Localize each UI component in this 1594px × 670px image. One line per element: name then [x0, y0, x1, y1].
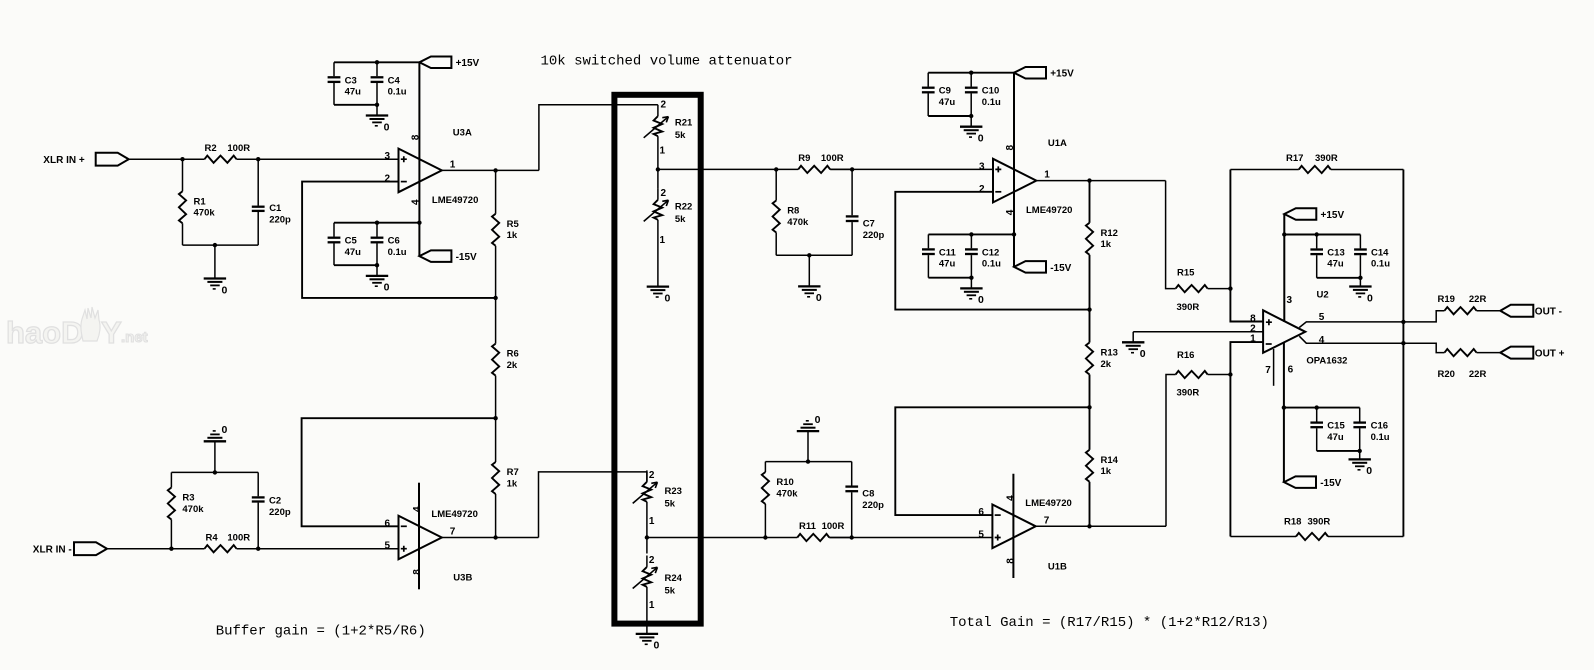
svg-text:C3: C3	[345, 75, 357, 86]
ground	[647, 287, 671, 305]
svg-text:1k: 1k	[507, 478, 518, 489]
wire	[129, 158, 205, 160]
svg-text:0: 0	[222, 424, 228, 436]
resistor R12 1k	[1086, 181, 1118, 310]
svg-text:0: 0	[1366, 465, 1372, 477]
svg-text:0: 0	[384, 121, 390, 133]
svg-text:R23: R23	[665, 486, 682, 497]
svg-text:470k: 470k	[787, 217, 809, 228]
svg-text:22R: 22R	[1469, 369, 1487, 380]
junction	[1358, 276, 1362, 280]
wire	[829, 537, 992, 539]
svg-text:220p: 220p	[863, 230, 885, 241]
svg-text:U1A: U1A	[1048, 138, 1067, 149]
svg-text:Y: Y	[101, 315, 122, 350]
svg-text:-15V: -15V	[1050, 263, 1071, 274]
svg-text:7: 7	[1044, 515, 1050, 526]
svg-text:R3: R3	[182, 493, 194, 504]
capacitor C7 220p	[846, 169, 885, 255]
svg-text:R15: R15	[1177, 268, 1195, 279]
wire	[302, 182, 496, 298]
svg-text:C1: C1	[269, 203, 282, 214]
svg-text:0.1u: 0.1u	[982, 97, 1001, 108]
wire	[647, 537, 766, 539]
capacitor C15 47u	[1310, 408, 1345, 451]
svg-text:2: 2	[384, 174, 390, 185]
svg-text:U3B: U3B	[453, 573, 472, 584]
svg-text:R7: R7	[507, 467, 519, 478]
resistor R16 390R	[1176, 350, 1231, 398]
annotation: buffer gain formula	[216, 623, 426, 639]
svg-text:47u: 47u	[1327, 259, 1344, 270]
wire	[928, 72, 1014, 74]
junction	[1315, 405, 1319, 409]
svg-text:47u: 47u	[345, 247, 362, 258]
wire	[539, 105, 658, 171]
op-amp U3B LME49720	[384, 506, 477, 584]
svg-text:100R: 100R	[227, 532, 250, 543]
junction	[375, 60, 379, 64]
junction	[1228, 286, 1232, 290]
svg-text:0.1u: 0.1u	[388, 247, 407, 258]
wire	[1284, 234, 1360, 236]
ground	[960, 278, 984, 307]
wire	[1230, 342, 1263, 536]
svg-text:100R: 100R	[822, 521, 845, 532]
svg-text:2k: 2k	[507, 360, 518, 371]
resistor R14 1k	[1086, 407, 1119, 526]
resistor R2 100R	[205, 143, 251, 163]
svg-text:3: 3	[384, 151, 390, 162]
potentiometer R21 5k	[644, 100, 693, 170]
svg-text:390R: 390R	[1177, 387, 1200, 398]
svg-text:1: 1	[660, 235, 666, 246]
svg-text:220p: 220p	[269, 214, 291, 225]
junction	[1087, 405, 1091, 409]
wire	[928, 277, 971, 279]
power rail U1A	[1013, 73, 1015, 267]
svg-text:C14: C14	[1371, 248, 1389, 259]
ground	[204, 245, 228, 296]
junction	[1012, 232, 1016, 236]
connector XLR IN -	[33, 542, 107, 555]
wire	[1403, 343, 1444, 352]
wire	[1036, 525, 1166, 527]
svg-text:Total Gain = (R17/R15) * (1+2*: Total Gain = (R17/R15) * (1+2*R12/R13)	[950, 615, 1269, 631]
svg-text:R19: R19	[1438, 294, 1455, 305]
capacitor C16 0.1u	[1353, 408, 1389, 451]
svg-text:LME49720: LME49720	[1025, 498, 1071, 509]
junction	[213, 470, 217, 474]
pin 3 rail U2	[1283, 214, 1285, 322]
svg-text:C13: C13	[1327, 248, 1344, 259]
svg-text:100R: 100R	[227, 143, 250, 154]
svg-text:LME49720: LME49720	[1026, 205, 1072, 216]
wire	[1299, 322, 1403, 328]
pin 6 rail U2	[1283, 342, 1285, 482]
power flag -15V	[1284, 476, 1342, 489]
svg-text:U1B: U1B	[1048, 561, 1067, 572]
svg-text:Buffer gain = (1+2*R5/R6): Buffer gain = (1+2*R5/R6)	[216, 623, 426, 639]
attenuator box	[614, 95, 700, 624]
svg-text:5: 5	[384, 541, 390, 552]
svg-text:390R: 390R	[1315, 153, 1338, 164]
svg-text:1k: 1k	[507, 230, 518, 241]
svg-text:R20: R20	[1438, 369, 1455, 380]
junction	[969, 114, 973, 118]
ground	[366, 265, 390, 294]
svg-text:390R: 390R	[1308, 517, 1331, 528]
svg-text:R2: R2	[205, 143, 217, 154]
wire	[830, 168, 993, 170]
wire	[442, 169, 539, 171]
junction	[256, 157, 260, 161]
capacitor C11 47u	[922, 234, 957, 277]
wire	[1166, 375, 1176, 527]
svg-text:2k: 2k	[1101, 359, 1112, 370]
junction	[417, 221, 421, 225]
junction	[375, 103, 379, 107]
svg-text:5: 5	[978, 530, 984, 541]
junction	[1087, 178, 1091, 182]
op-amp U1A LME49720	[979, 138, 1073, 216]
capacitor C9 47u	[922, 73, 955, 116]
junction	[375, 263, 379, 267]
svg-text:OUT -: OUT -	[1535, 307, 1562, 318]
wire	[1402, 170, 1404, 537]
capacitor C6 0.1u	[371, 223, 407, 266]
svg-text:6: 6	[1288, 364, 1294, 375]
power rail U3B	[418, 483, 420, 590]
svg-text:0: 0	[665, 292, 671, 304]
junction	[493, 416, 497, 420]
svg-text:R21: R21	[675, 118, 693, 129]
junction	[807, 253, 811, 257]
resistor R7 1k	[492, 418, 519, 537]
capacitor C4 0.1u	[371, 62, 407, 105]
svg-text:10k switched volume attenuator: 10k switched volume attenuator	[541, 54, 793, 70]
ground	[636, 634, 660, 652]
junction	[850, 167, 854, 171]
svg-text:+15V: +15V	[456, 58, 480, 69]
svg-text:R6: R6	[507, 349, 519, 360]
svg-text:8: 8	[412, 569, 423, 575]
junction	[1315, 232, 1319, 236]
wire	[928, 233, 1014, 235]
junction	[1358, 449, 1362, 453]
resistor R15 390R	[1176, 268, 1231, 313]
potentiometer R23 5k	[633, 470, 682, 538]
op-amp U3A LME49720	[384, 127, 478, 205]
svg-text:C2: C2	[269, 496, 281, 507]
wire	[183, 244, 259, 246]
svg-text:C4: C4	[388, 75, 401, 86]
svg-text:2: 2	[661, 188, 667, 199]
svg-text:C11: C11	[939, 247, 957, 258]
wire	[928, 115, 971, 117]
svg-text:0: 0	[978, 133, 984, 145]
wire	[658, 168, 776, 170]
svg-text:1: 1	[450, 159, 456, 170]
svg-text:-15V: -15V	[1320, 478, 1341, 489]
svg-text:2: 2	[661, 100, 667, 111]
svg-text:R17: R17	[1286, 153, 1303, 164]
svg-text:C10: C10	[982, 86, 999, 97]
ground	[798, 255, 822, 304]
resistor R3 470k	[168, 472, 204, 548]
power flag -15V	[1014, 261, 1072, 274]
svg-text:R18: R18	[1284, 517, 1301, 528]
svg-text:0.1u: 0.1u	[1371, 259, 1390, 270]
resistor R20 22R	[1438, 349, 1501, 380]
potentiometer R24 5k	[633, 538, 683, 634]
capacitor C10 0.1u	[965, 73, 1001, 116]
svg-text:3: 3	[1287, 295, 1293, 306]
svg-text:OPA1632: OPA1632	[1306, 355, 1347, 366]
svg-text:3: 3	[979, 161, 985, 172]
svg-text:0.1u: 0.1u	[1371, 432, 1390, 443]
capacitor C3 47u	[328, 62, 362, 105]
power flag -15V	[419, 250, 477, 263]
wire	[1299, 336, 1403, 343]
svg-text:8: 8	[1006, 558, 1017, 564]
junction	[493, 535, 497, 539]
svg-text:5k: 5k	[675, 214, 686, 225]
svg-text:C6: C6	[388, 236, 400, 247]
svg-text:0: 0	[816, 292, 822, 304]
power flag +15V	[1014, 67, 1074, 80]
pin 7 stub U2	[1273, 349, 1275, 386]
svg-text:R12: R12	[1101, 228, 1118, 239]
resistor R1 470k	[179, 159, 215, 245]
resistor R18 390R	[1230, 517, 1403, 541]
wire	[1284, 407, 1360, 409]
ground	[366, 105, 390, 134]
svg-text:6: 6	[384, 518, 390, 529]
svg-text:U3A: U3A	[453, 127, 472, 138]
ground	[204, 424, 228, 472]
svg-text:0: 0	[222, 284, 228, 296]
svg-text:0: 0	[1140, 348, 1146, 360]
svg-text:.net: .net	[121, 329, 148, 346]
svg-text:0: 0	[815, 414, 821, 426]
svg-text:2: 2	[649, 555, 655, 566]
svg-text:R24: R24	[665, 573, 683, 584]
op-amp U1B LME49720	[978, 495, 1071, 572]
junction	[256, 547, 260, 551]
svg-text:4: 4	[1006, 495, 1017, 501]
resistor R8 470k	[773, 169, 809, 255]
svg-text:6: 6	[978, 507, 984, 518]
junction	[493, 168, 497, 172]
svg-text:R13: R13	[1101, 348, 1118, 359]
svg-text:1: 1	[649, 600, 655, 611]
svg-text:22R: 22R	[1469, 294, 1487, 305]
svg-text:R22: R22	[675, 202, 692, 213]
svg-text:7: 7	[1265, 365, 1271, 376]
svg-text:XLR IN -: XLR IN -	[33, 545, 72, 556]
wire	[334, 61, 419, 63]
wire	[1036, 180, 1165, 182]
decorative watermark	[6, 307, 148, 350]
wire	[107, 548, 205, 550]
wire	[1133, 331, 1263, 333]
connector OUT +	[1500, 347, 1564, 360]
resistor R9 100R	[776, 153, 852, 173]
svg-text:-15V: -15V	[456, 252, 477, 263]
ground	[1122, 332, 1146, 360]
svg-text:1k: 1k	[1101, 239, 1112, 250]
wire	[1403, 311, 1444, 322]
junction	[1282, 232, 1286, 236]
junction	[969, 71, 973, 75]
svg-text:R16: R16	[1177, 350, 1194, 361]
svg-text:R14: R14	[1101, 455, 1119, 466]
ground	[797, 414, 821, 462]
svg-text:1: 1	[1250, 334, 1256, 345]
capacitor C8 220p	[845, 462, 884, 538]
svg-text:R4: R4	[206, 532, 219, 543]
svg-text:C12: C12	[982, 247, 999, 258]
svg-text:XLR IN +: XLR IN +	[43, 155, 85, 166]
wire	[765, 461, 851, 463]
wire	[442, 537, 539, 539]
svg-text:U2: U2	[1317, 290, 1329, 301]
svg-text:OUT +: OUT +	[1535, 349, 1565, 360]
svg-text:R1: R1	[194, 196, 207, 207]
annotation: total gain formula	[950, 615, 1269, 631]
svg-text:2: 2	[979, 184, 985, 195]
svg-text:470k: 470k	[182, 504, 204, 515]
svg-text:0.1u: 0.1u	[982, 259, 1001, 270]
resistor R4 100R	[205, 532, 251, 552]
svg-text:haoD: haoD	[6, 315, 84, 350]
wire	[776, 254, 852, 256]
resistor R6 2k	[492, 298, 519, 418]
svg-text:7: 7	[450, 527, 456, 538]
svg-text:C5: C5	[345, 236, 358, 247]
wire	[1317, 277, 1361, 279]
wire	[237, 158, 399, 160]
wire	[1317, 450, 1360, 452]
junction	[1282, 405, 1286, 409]
svg-text:220p: 220p	[862, 500, 884, 511]
svg-text:220p: 220p	[269, 507, 291, 518]
op-amp U2 OPA1632	[1250, 290, 1347, 377]
resistor R11 100R	[765, 521, 851, 541]
svg-text:100R: 100R	[821, 153, 844, 164]
junction	[169, 547, 173, 551]
svg-text:LME49720: LME49720	[431, 509, 477, 520]
svg-text:390R: 390R	[1177, 302, 1200, 313]
wire	[895, 192, 1089, 310]
wire	[539, 472, 647, 538]
wire	[334, 104, 377, 106]
svg-text:1k: 1k	[1101, 466, 1112, 477]
svg-text:0: 0	[384, 282, 390, 294]
junction	[213, 243, 217, 247]
svg-text:R9: R9	[798, 153, 810, 164]
svg-text:+15V: +15V	[1321, 210, 1345, 221]
svg-text:5k: 5k	[675, 130, 686, 141]
svg-text:470k: 470k	[776, 488, 798, 499]
svg-text:4: 4	[1319, 335, 1325, 346]
svg-text:1: 1	[1044, 170, 1050, 181]
junction	[774, 167, 778, 171]
junction	[806, 459, 810, 463]
wire	[334, 264, 377, 266]
svg-text:R8: R8	[787, 206, 799, 217]
power flag +15V	[419, 57, 479, 70]
junction	[1228, 372, 1232, 376]
junction	[493, 296, 497, 300]
wire	[237, 548, 399, 550]
connector XLR IN +	[43, 153, 128, 166]
junction	[1401, 341, 1405, 345]
svg-text:4: 4	[412, 506, 423, 512]
capacitor C14 0.1u	[1354, 235, 1390, 278]
svg-text:470k: 470k	[194, 208, 216, 219]
annotation: attenuator title	[541, 54, 793, 70]
junction	[375, 221, 379, 225]
svg-text:47u: 47u	[939, 97, 956, 108]
power rail U3A	[418, 62, 420, 256]
junction	[1087, 524, 1091, 528]
wire	[334, 222, 419, 224]
junction	[645, 535, 649, 539]
connector OUT -	[1500, 305, 1562, 318]
junction	[850, 535, 854, 539]
svg-text:+15V: +15V	[1050, 69, 1074, 80]
svg-text:R11: R11	[799, 521, 817, 532]
svg-text:R5: R5	[507, 219, 520, 230]
svg-text:47u: 47u	[939, 259, 956, 270]
svg-text:R10: R10	[776, 477, 793, 488]
svg-text:C8: C8	[862, 489, 874, 500]
capacitor C12 0.1u	[965, 234, 1001, 277]
resistor R5 1k	[492, 170, 519, 298]
svg-text:C16: C16	[1371, 421, 1388, 432]
junction	[763, 535, 767, 539]
svg-text:0: 0	[1367, 292, 1373, 304]
power rail U1B	[1012, 474, 1014, 578]
svg-text:C9: C9	[939, 86, 951, 97]
ground	[1349, 451, 1373, 477]
ground	[960, 116, 984, 145]
wire	[302, 418, 496, 526]
svg-text:C7: C7	[863, 219, 875, 230]
resistor R13 2k	[1086, 310, 1118, 408]
junction	[656, 167, 660, 171]
wire	[171, 471, 258, 473]
svg-text:2: 2	[649, 470, 655, 481]
junction	[1087, 307, 1091, 311]
capacitor C2 220p	[252, 472, 291, 548]
svg-text:LME49720: LME49720	[432, 195, 478, 206]
wire	[895, 407, 1089, 515]
ground	[1349, 278, 1373, 305]
resistor R10 470k	[762, 462, 798, 538]
svg-text:0: 0	[978, 294, 984, 306]
capacitor C5 47u	[328, 223, 362, 266]
wire	[1230, 170, 1263, 322]
svg-text:0.1u: 0.1u	[388, 87, 407, 98]
svg-text:1: 1	[660, 146, 666, 157]
svg-text:47u: 47u	[345, 87, 362, 98]
capacitor C13 47u	[1310, 235, 1344, 278]
svg-text:47u: 47u	[1327, 432, 1344, 443]
svg-text:5k: 5k	[665, 585, 676, 596]
